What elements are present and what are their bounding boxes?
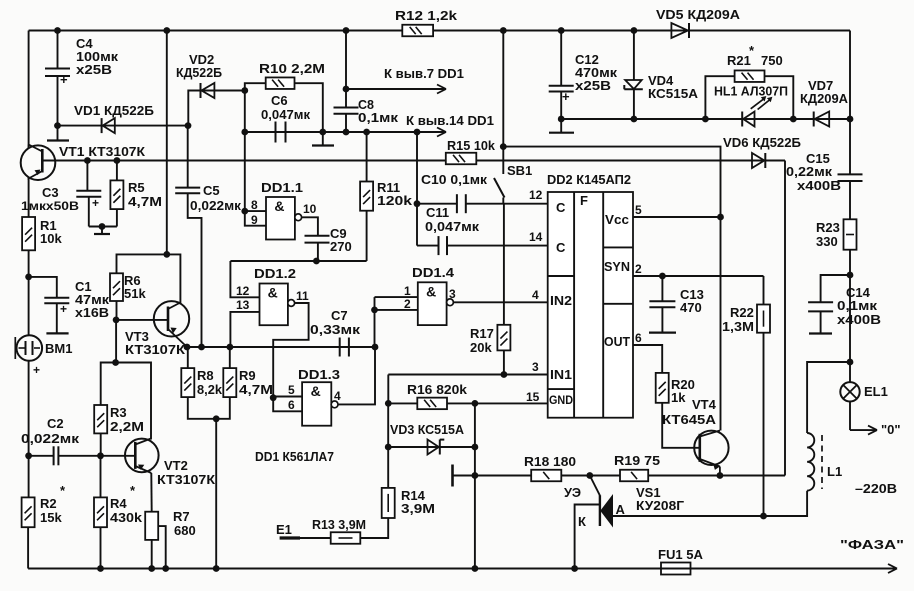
svg-text:SB1: SB1: [507, 163, 532, 178]
svg-text:0,33мк: 0,33мк: [310, 322, 361, 337]
resistor R5: [110, 161, 123, 227]
wire bottom mains rail: [28, 568, 897, 570]
svg-text:9: 9: [251, 213, 258, 227]
node R17 bottom: [501, 371, 508, 378]
label pin6: [288, 398, 295, 412]
resistor R7: [145, 512, 158, 540]
label R16: [407, 382, 468, 397]
label R3: [110, 405, 144, 434]
common bar under C3R5: [94, 233, 110, 235]
svg-text:R7: R7: [173, 509, 190, 524]
node VS1 cathode rail: [571, 565, 578, 572]
svg-text:VT1 КТ3107К: VT1 КТ3107К: [59, 144, 145, 159]
svg-text:8: 8: [251, 198, 258, 212]
wire VD1 stub to bar: [57, 126, 59, 141]
svg-text:R18 180: R18 180: [524, 454, 576, 469]
label C7: [310, 308, 361, 337]
label VD4: [648, 73, 699, 101]
wire DD1.1 inputs: [245, 132, 266, 226]
wire left rail upper: [28, 31, 30, 149]
svg-text:R8: R8: [197, 368, 214, 383]
svg-text:5: 5: [635, 203, 642, 217]
node SYN C13: [659, 273, 666, 280]
node DD1.3 in: [270, 394, 277, 401]
label R2: [40, 483, 66, 525]
label R22: [722, 305, 754, 334]
svg-text:КУ208Г: КУ208Г: [636, 498, 685, 513]
node bus top: [163, 27, 170, 34]
svg-text:КТ3107К: КТ3107К: [125, 342, 185, 357]
node R7 tap rail: [162, 565, 169, 572]
label C9: [330, 226, 352, 254]
resistor R21: [705, 70, 793, 118]
wire R4 top: [100, 456, 102, 498]
node R7 rail: [148, 565, 155, 572]
wire R8R9 to bottom rail: [215, 419, 217, 569]
terminal E1: [276, 522, 300, 538]
label VS1 K: [578, 514, 586, 529]
label R13: [312, 517, 366, 532]
label DD2 C2: [556, 240, 566, 255]
wire R7 tap: [158, 526, 166, 568]
label VD7: [800, 78, 849, 106]
svg-text:КТ3107К: КТ3107К: [157, 472, 215, 487]
label C10: [421, 172, 488, 187]
common bar under C6: [312, 144, 334, 146]
svg-text:14: 14: [529, 230, 543, 244]
svg-text:BM1: BM1: [45, 341, 72, 356]
capacitor C6: [276, 122, 286, 143]
label R10: [259, 61, 325, 76]
svg-text:DD1.3: DD1.3: [298, 367, 340, 382]
label pin8: [251, 198, 258, 212]
label R23: [816, 220, 840, 249]
svg-text:680: 680: [174, 523, 196, 538]
label DD1.4: [412, 265, 455, 280]
svg-text:0,022мк: 0,022мк: [21, 431, 80, 446]
label R6: [124, 273, 146, 301]
capacitor C8: [334, 31, 359, 133]
capacitor C1: [29, 277, 70, 334]
svg-text:x400В: x400В: [837, 312, 881, 327]
wire base to VT3: [116, 319, 168, 321]
resistor R10 2.2M: [245, 77, 323, 132]
svg-text:11: 11: [296, 289, 309, 303]
svg-text:4: 4: [532, 288, 539, 302]
svg-text:&: &: [311, 383, 321, 399]
label VT1: [59, 144, 145, 159]
svg-text:0,022мк: 0,022мк: [190, 198, 242, 213]
node R3 top junction: [112, 359, 119, 366]
node junction C1: [25, 274, 32, 281]
node R22 bottom: [760, 513, 767, 520]
node SB1 rail: [500, 27, 507, 34]
svg-text:R21: R21: [727, 53, 751, 68]
capacitor C3: [76, 161, 101, 227]
wire L1 top branch: [807, 362, 850, 433]
wire GND line: [475, 402, 548, 404]
wire E1 to R13: [300, 537, 331, 539]
wire R6 branch: [117, 254, 167, 273]
wire VS1 cathode: [575, 505, 600, 569]
node VD3 rail: [472, 565, 479, 572]
wire base line VT1 to VD6 corner: [42, 160, 785, 162]
wire C15 to R23: [849, 181, 851, 219]
svg-text:0,1мк: 0,1мк: [358, 111, 399, 125]
wire emitter row y347: [187, 346, 230, 348]
label L1: [827, 464, 842, 479]
node C12 rail: [558, 27, 565, 34]
svg-text:&: &: [274, 198, 284, 214]
capacitor C5: [175, 126, 201, 347]
resistor R3: [94, 405, 107, 433]
svg-text:Vcc: Vcc: [605, 212, 629, 227]
svg-text:DD2 К145АП2: DD2 К145АП2: [547, 172, 631, 187]
wire VD3R16 right vert: [474, 403, 476, 568]
node VT2 base node: [97, 452, 104, 459]
label -220V: [855, 481, 897, 496]
svg-text:"0": "0": [881, 422, 901, 437]
wire DD1.1 out: [302, 217, 318, 235]
svg-text:10: 10: [303, 202, 317, 216]
terminal plate left: [451, 465, 454, 487]
node C8 rail: [343, 27, 350, 34]
svg-text:470: 470: [680, 300, 702, 315]
label C12: [575, 52, 618, 93]
svg-text:R5: R5: [128, 180, 145, 195]
IC DD2 K145AP2 box: [548, 192, 633, 418]
wire C6 right stub: [322, 132, 324, 146]
label R1: [40, 218, 62, 246]
svg-text:R19 75: R19 75: [614, 453, 660, 468]
resistor R13: [331, 532, 361, 544]
svg-text:51k: 51k: [124, 286, 146, 301]
diode VD6: [752, 153, 765, 168]
wire C2 node to R2: [28, 456, 30, 498]
wire DD1.3 pin5: [273, 396, 302, 398]
node C12 bottom: [558, 116, 565, 123]
diode VD4 zener: [624, 31, 643, 120]
wire C7 line: [230, 346, 375, 348]
wire sensor row: [453, 475, 786, 477]
capacitor C13: [649, 276, 675, 333]
svg-text:R10 2,2М: R10 2,2М: [259, 61, 325, 76]
label BM1 plus: [33, 363, 40, 377]
diode VD7: [814, 112, 830, 127]
label UE: [564, 485, 581, 500]
wire DD1.4 out to IN2: [453, 301, 547, 303]
common bar under C13: [649, 332, 676, 334]
svg-text:8,2k: 8,2k: [197, 382, 223, 397]
transistor VT2 KT3107K: [125, 439, 159, 474]
node SB1 top: [500, 143, 507, 150]
svg-text:13: 13: [236, 298, 250, 312]
resistor R19: [620, 470, 648, 482]
label pin12: [236, 284, 250, 298]
label VD6: [723, 135, 801, 150]
node R21 left: [702, 116, 709, 123]
bus rail drop x167: [166, 31, 168, 255]
microphone BM1: [15, 335, 42, 361]
wire to VT2 collector: [116, 363, 151, 440]
resistor R20: [656, 373, 669, 403]
label C6: [261, 93, 310, 122]
label DD2 SYN: [604, 259, 630, 274]
label C15: [786, 151, 841, 193]
node DD1.1 in: [241, 208, 248, 215]
transistor VT3 KT3107K: [154, 301, 189, 347]
gate DD1.3: [302, 382, 331, 426]
svg-text:3,9М: 3,9М: [401, 501, 435, 516]
label C2: [21, 416, 80, 446]
gate DD1.2: [260, 284, 288, 326]
resistor R6: [110, 273, 123, 301]
label R14: [401, 488, 435, 516]
wire VD6 net drop: [784, 161, 786, 476]
svg-text:1k: 1k: [671, 390, 686, 405]
wire pin14 line: [245, 131, 446, 133]
label pin9: [251, 213, 258, 227]
wire VT3 collector branch: [167, 254, 181, 303]
node VT4 emitter: [717, 472, 724, 479]
wire IN1 line: [388, 374, 547, 377]
svg-text:К выв.7 DD1: К выв.7 DD1: [384, 67, 464, 81]
svg-text:0,1мк: 0,1мк: [837, 298, 878, 313]
capacitor C2: [29, 446, 101, 465]
label DD2 pin5: [635, 203, 642, 217]
label pin13: [236, 298, 250, 312]
svg-text:IN1: IN1: [550, 367, 572, 382]
svg-text:1мкх50В: 1мкх50В: [21, 199, 79, 213]
label R20: [671, 377, 695, 405]
label R17: [470, 326, 494, 355]
thyristor VS1 KU208G: [590, 476, 613, 527]
label VS1 A: [616, 502, 626, 517]
svg-text:R2: R2: [40, 496, 57, 511]
svg-text:330: 330: [816, 234, 838, 249]
node Vcc junction: [717, 214, 724, 221]
label DD2: [547, 172, 631, 187]
svg-text:2,2М: 2,2М: [110, 419, 144, 434]
wire R23 down: [849, 250, 851, 275]
svg-text:2: 2: [404, 297, 411, 311]
wire R20 to VT4 base: [662, 403, 700, 448]
svg-text:C: C: [556, 200, 566, 215]
wire to R3: [101, 363, 116, 406]
node C6 left: [241, 129, 248, 136]
wire DD1.4 inputs: [375, 297, 418, 310]
svg-text:C5: C5: [203, 183, 220, 198]
label R9: [239, 368, 273, 397]
arrow к выв.14 DD1: [406, 114, 494, 137]
node R4 rail: [97, 565, 104, 572]
resistor R12: [402, 25, 433, 37]
node C8 bottom: [343, 129, 350, 136]
svg-text:15: 15: [526, 390, 540, 404]
wire DD1.4 in drop: [374, 310, 376, 347]
label DD2 Vcc: [605, 212, 629, 227]
node R8R9 rail: [213, 565, 220, 572]
label DD1 type: [255, 449, 334, 464]
svg-text:DD1.4: DD1.4: [412, 265, 455, 280]
bubble DD1.4 out: [447, 299, 454, 306]
wire left rail to R1: [28, 178, 30, 218]
label DD2 IN1: [550, 367, 572, 382]
wire DD1.3 out: [338, 347, 375, 404]
svg-text:R22: R22: [730, 305, 754, 320]
label C3: [21, 185, 79, 213]
svg-text:C11: C11: [426, 205, 449, 220]
label BM1: [45, 341, 72, 356]
svg-text:+: +: [92, 196, 99, 210]
resistor R1: [22, 217, 35, 250]
resistor R4: [94, 497, 107, 527]
node sensor rail cross: [472, 472, 479, 479]
label C8: [358, 98, 399, 125]
label pin10: [303, 202, 317, 216]
label C1: [75, 279, 110, 320]
wire VT2 emitter to R7: [150, 473, 152, 512]
label pin1: [404, 284, 411, 298]
capacitor C10: [417, 194, 548, 213]
svg-text:К выв.14 DD1: К выв.14 DD1: [406, 114, 494, 128]
svg-text:3: 3: [532, 360, 539, 374]
wire C14node to EL1 node: [849, 275, 851, 362]
wire Vcc to VT4 collector: [720, 217, 722, 431]
svg-text:А: А: [616, 502, 626, 517]
svg-text:4: 4: [334, 389, 341, 403]
diode VD1: [58, 118, 189, 133]
svg-text:К: К: [578, 514, 586, 529]
svg-text:КД522Б: КД522Б: [176, 65, 222, 80]
resistor R15: [446, 153, 477, 165]
wire OUT pin: [633, 345, 662, 373]
label R4: [110, 483, 143, 525]
svg-text:15k: 15k: [40, 510, 62, 525]
resistor R23: [844, 219, 857, 249]
label VD3: [390, 422, 465, 437]
wire top supply rail: [29, 30, 850, 32]
svg-text:L1: L1: [827, 464, 842, 479]
svg-text:DD1.2: DD1.2: [254, 266, 296, 281]
svg-text:1,3М: 1,3М: [722, 319, 754, 334]
svg-text:x16В: x16В: [75, 305, 109, 320]
node R8R9 join: [213, 415, 220, 422]
inductor L1: [807, 433, 822, 491]
node C3 top: [84, 157, 91, 164]
label VS1: [636, 485, 685, 513]
node R9 top: [227, 344, 234, 351]
label DD2 pin15: [526, 390, 540, 404]
label C11: [425, 205, 480, 234]
wire C9line to pin12: [230, 261, 259, 297]
capacitor C4: [45, 31, 70, 126]
wire C3-R5 bottom join: [89, 226, 117, 228]
label C5: [190, 183, 242, 213]
svg-text:12: 12: [236, 284, 250, 298]
label HL1: [714, 84, 788, 99]
wire VT3base down: [115, 320, 117, 363]
node VT3 base: [113, 317, 120, 324]
svg-text:5: 5: [288, 383, 295, 397]
wire DD1.2 out: [273, 303, 308, 398]
node vyv7: [343, 86, 350, 93]
svg-text:C7: C7: [331, 308, 348, 323]
node C7 right: [372, 344, 379, 351]
resistor R8: [181, 347, 216, 419]
label VT4: [662, 397, 717, 427]
label DD1.1: [261, 180, 303, 195]
wire C12 stub: [560, 119, 562, 133]
common bar under VD1: [47, 139, 69, 141]
lamp EL1: [840, 362, 859, 430]
wire R7 bottom: [151, 540, 153, 569]
svg-text:R3: R3: [110, 405, 127, 420]
svg-text:10k: 10k: [40, 231, 62, 246]
common bar under C1: [46, 332, 68, 334]
wire rail drop SB1: [502, 31, 504, 147]
wire R13 to R14: [360, 518, 388, 538]
node VD3 right: [472, 444, 479, 451]
svg-text:DD1 К561ЛА7: DD1 К561ЛА7: [255, 449, 334, 464]
wire SB1 to R17: [503, 204, 505, 325]
resistor R17: [497, 325, 510, 351]
svg-text:F: F: [580, 193, 588, 208]
node VD4 rail: [631, 27, 638, 34]
label VD1: [74, 103, 154, 118]
label R8: [197, 368, 223, 397]
wire C9 line: [230, 260, 366, 262]
node junction C2 left: [25, 452, 32, 459]
label VT2: [157, 458, 215, 487]
label VD5: [656, 7, 741, 22]
label DD2 GND: [549, 393, 573, 407]
label DD1.3: [298, 367, 340, 382]
capacitor C14: [808, 275, 850, 334]
svg-text:430k: 430k: [110, 510, 143, 525]
svg-text:C6: C6: [271, 93, 288, 108]
node VD2 cathode junction: [241, 87, 248, 94]
wire left rail R1 to C1 node: [28, 250, 30, 277]
label SB1: [507, 163, 532, 178]
wire left rail to BM1: [28, 277, 30, 336]
bubble DD1.3 out: [331, 401, 338, 408]
label DD2 pin2: [635, 262, 642, 276]
svg-text:6: 6: [288, 398, 295, 412]
label pin4: [334, 389, 341, 403]
svg-text:C2: C2: [47, 416, 64, 431]
svg-text:VD5 КД209А: VD5 КД209А: [656, 7, 741, 22]
node VD3 left: [385, 444, 392, 451]
label R7: [173, 509, 196, 538]
svg-text:E1: E1: [276, 522, 292, 537]
label DD2 C1: [556, 200, 566, 215]
svg-text:+: +: [33, 363, 40, 377]
label DD2 F: [580, 193, 588, 208]
svg-text:HL1 АЛ307П: HL1 АЛ307П: [714, 84, 788, 99]
label pin11: [296, 289, 309, 303]
svg-text:x400В: x400В: [797, 178, 841, 193]
svg-text:C10 0,1мк: C10 0,1мк: [421, 172, 488, 187]
svg-text:x25В: x25В: [575, 78, 611, 93]
node VD4 bottom: [631, 116, 638, 123]
node bus bottom: [163, 251, 170, 258]
wire R16 left vert: [387, 375, 389, 403]
svg-text:+: +: [562, 89, 570, 104]
label DD2 pin6: [635, 331, 642, 345]
svg-text:C3: C3: [42, 185, 59, 200]
svg-text:&: &: [268, 285, 278, 301]
